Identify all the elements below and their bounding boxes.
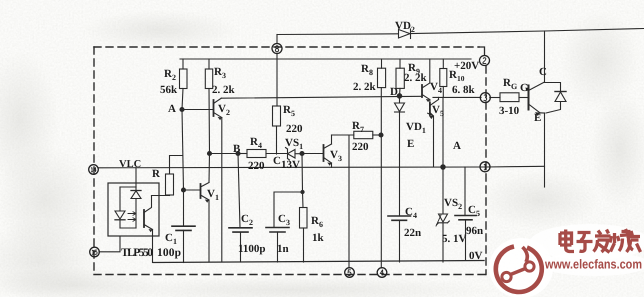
wire C3 branch: [274, 192, 303, 227]
hanzi zi: [577, 233, 593, 252]
svg-text:1100p: 1100p: [238, 243, 266, 255]
wire junction to V3 base: [302, 153, 324, 155]
zener VS2: [436, 214, 449, 262]
wire R8 vertical down to terminal 4: [380, 88, 382, 268]
svg-text:B: B: [233, 143, 241, 155]
0V bus: [154, 261, 485, 263]
resistor R5: [273, 106, 281, 154]
wire V5 emitter down to rail: [433, 116, 435, 167]
resistor R7: [332, 131, 382, 138]
wire top line left of VD2: [277, 33, 398, 36]
capacitor C2: [229, 228, 252, 262]
optocoupler U1 TLP550 box: [108, 183, 159, 236]
transistor V5: [428, 100, 439, 120]
wire B down to C2: [238, 154, 240, 228]
svg-text:1n: 1n: [277, 243, 289, 255]
wire junction down to R6: [302, 154, 303, 208]
svg-text:www.elecfans.com: www.elecfans.com: [544, 257, 642, 272]
dashed box top-right corner to node 2: [479, 47, 485, 55]
svg-text:56k: 56k: [160, 84, 178, 96]
watermark chinese text: [560, 229, 641, 253]
watermark logo circle: [496, 247, 542, 292]
hanzi dian: [560, 230, 574, 252]
watermark: [496, 247, 542, 292]
resistor R: [166, 156, 183, 196]
resistor R8: [378, 59, 386, 88]
terminal node 15: [90, 247, 100, 257]
svg-text:2. 2k: 2. 2k: [212, 84, 236, 96]
svg-text:3-10: 3-10: [499, 105, 520, 117]
node V1 base junction: [182, 188, 186, 192]
svg-text:13V: 13V: [281, 159, 300, 171]
svg-text:E: E: [407, 138, 414, 150]
diode VD1: [395, 96, 405, 216]
wire VS1 to junction: [295, 153, 302, 155]
wire output emitter down: [544, 113, 546, 187]
svg-text:5. 1V: 5. 1V: [442, 233, 467, 245]
svg-text:2. 2k: 2. 2k: [353, 81, 377, 93]
phototransistor: [144, 196, 153, 237]
wire node8 riser to top line: [276, 35, 278, 44]
terminal node 3: [480, 93, 490, 103]
resistor R6: [300, 208, 308, 263]
wire A down to V1 base junction: [182, 110, 184, 191]
capacitor C5: [455, 167, 476, 260]
svg-text:A: A: [168, 103, 176, 115]
VLC emitter rail: [98, 166, 545, 168]
dashed box right edge: [485, 66, 487, 275]
wire V1 emitter to bus: [208, 200, 210, 262]
terminal node 5: [345, 268, 355, 278]
wire junction to V1 base: [184, 189, 201, 191]
wire V1 collector up to junction: [208, 154, 211, 183]
wire phototransistor emitter to bus: [152, 236, 154, 263]
svg-text:220: 220: [286, 123, 303, 135]
LED D2 (down): [115, 187, 125, 228]
node B junction dot (left): [208, 152, 212, 156]
svg-text:E: E: [534, 112, 541, 124]
dashed box top edge: [94, 46, 479, 48]
transistor V1: [201, 183, 210, 203]
svg-text:VLC: VLC: [119, 159, 141, 170]
svg-text:D: D: [390, 86, 398, 98]
capacitor C4: [388, 216, 411, 262]
wire junction to B: [210, 153, 239, 155]
hanzi shao: [610, 229, 633, 252]
node VS2/rail junction: [441, 165, 445, 169]
transistor V2: [214, 98, 222, 120]
node B: [236, 152, 240, 156]
LED pair cross wires: [120, 187, 136, 228]
svg-text:2. 2k: 2. 2k: [404, 72, 428, 84]
diode VD2: [399, 29, 411, 39]
wire top line right of VD2: [411, 29, 644, 34]
watermark halo: [489, 224, 644, 297]
svg-text:96n: 96n: [466, 225, 483, 237]
node A: [180, 108, 184, 112]
resistor R9: [396, 59, 404, 96]
output transistor base bar: [529, 82, 545, 116]
wire LED cathode to terminal 15: [99, 236, 120, 252]
node R7/R8 junction: [379, 133, 383, 137]
svg-text:220: 220: [352, 141, 369, 153]
svg-text:100p: 100p: [157, 247, 181, 259]
wire VLC rail drop to LED: [135, 168, 137, 187]
freewheel diode: [545, 83, 567, 114]
wire V5 collector to node3 wire: [438, 97, 440, 99]
capacitor C1: [172, 226, 195, 262]
svg-text:+20V: +20V: [454, 60, 479, 72]
svg-text:TLP550: TLP550: [121, 247, 153, 259]
wire V2 collector line to V4 base (node D line): [221, 96, 422, 98]
hanzi you: [627, 231, 641, 252]
capacitor C3: [266, 228, 289, 263]
wire output collector up to top line: [544, 31, 546, 82]
wire V2 emitter to 0V bus: [221, 118, 223, 263]
svg-text:0V: 0V: [469, 250, 483, 262]
wire node3 horizontal: [433, 96, 481, 98]
dashed box left edge: [93, 47, 95, 275]
wire V3 collector up: [331, 135, 333, 144]
resistor RG: [500, 93, 529, 102]
resistor R4: [238, 150, 288, 158]
dashed box bottom edge: [94, 274, 486, 276]
terminal node 4: [377, 268, 387, 278]
resistor R10: [440, 59, 447, 97]
node 3 to RG wire: [490, 97, 500, 99]
top rail +20V: [180, 58, 471, 60]
svg-text:22n: 22n: [404, 227, 421, 239]
terminal node 1: [480, 162, 490, 172]
node after VS1: [300, 152, 304, 156]
svg-text:R: R: [152, 168, 161, 180]
svg-text:1k: 1k: [312, 232, 325, 244]
wire junction down to C1: [183, 190, 185, 226]
wire node8 to R5: [276, 54, 278, 107]
terminal node 8: [272, 44, 282, 54]
zener VS1: [286, 148, 296, 161]
light arrows: [128, 212, 136, 222]
svg-text:C: C: [273, 155, 281, 167]
wire phototransistor collector to R bottom: [152, 195, 170, 197]
transistor V4: [422, 83, 430, 102]
wire terminal5 riser: [348, 135, 350, 268]
resistor R2: [180, 59, 188, 110]
hanzi fa: [594, 230, 611, 253]
wire VS2 branch down: [442, 97, 444, 214]
node R6/C3 junction: [301, 190, 304, 193]
terminal node 2: [480, 56, 490, 66]
resistor R3: [205, 59, 212, 154]
wire V4 collector to rail: [429, 59, 431, 83]
svg-text:6. 8k: 6. 8k: [452, 84, 476, 96]
node D: [397, 94, 401, 98]
svg-text:220: 220: [248, 160, 265, 172]
svg-text:G: G: [520, 82, 529, 94]
transistor V3: [324, 144, 332, 167]
svg-text:C: C: [539, 66, 547, 78]
svg-text:A: A: [453, 140, 461, 152]
wire A to V2 base: [182, 109, 214, 111]
LED D1 (up): [131, 187, 141, 228]
terminal node 14: [89, 165, 99, 175]
